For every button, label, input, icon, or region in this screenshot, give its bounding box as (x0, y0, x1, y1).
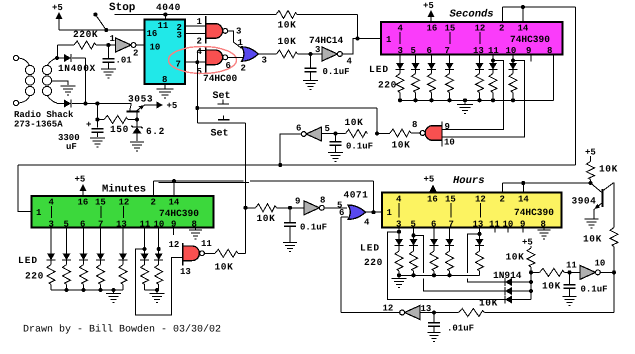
svg-text:3: 3 (177, 31, 182, 41)
pin 11 label (158, 21, 169, 31)
wire U8 pin 10 stub (507, 228, 509, 233)
wire U3b out to hours pin 1 (366, 210, 383, 214)
label 10K (R10) (542, 281, 561, 292)
pin 5 label (U6) (411, 46, 416, 56)
wire (bottom secondary to D2) (57, 103, 64, 105)
LED D35 hours pin13 column (475, 228, 484, 246)
OR gate U3b 4071 (hours clock) (348, 205, 366, 219)
svg-text:8: 8 (320, 196, 325, 206)
pin 8 label (162, 75, 167, 85)
label 0.1uF (C5) (300, 223, 327, 233)
capacitor C4 0.1uF (330, 134, 342, 153)
svg-text:273-1365A: 273-1365A (14, 120, 63, 130)
resistor R14 220 seconds column (446, 70, 454, 101)
resistor R27 220 (155, 260, 163, 290)
svg-text:5: 5 (411, 46, 416, 56)
svg-text:10: 10 (506, 46, 517, 56)
pin 16 label (U7) (78, 198, 89, 208)
ground (C6) (563, 297, 577, 306)
svg-text:16: 16 (427, 24, 438, 34)
svg-text:11: 11 (158, 21, 169, 31)
wire U4b input from cap node (420, 312, 434, 314)
wire R6 to U1b (322, 132, 346, 136)
LED D14 seconds column (445, 55, 454, 70)
capacitor C5 0.1uF (284, 208, 296, 242)
svg-text:5: 5 (325, 124, 330, 134)
svg-text:10K: 10K (479, 298, 498, 309)
pin 16 label (U6) (427, 24, 438, 34)
label 0.1uF (C3) (323, 67, 350, 77)
pin 7 label (U8) (449, 220, 454, 230)
svg-text:10K: 10K (392, 140, 411, 151)
wire minutes pin11/10 bus (145, 288, 159, 292)
LED D34 hours column (445, 228, 454, 246)
label .01uF (C7) (447, 324, 474, 334)
NAND gate U2a 74HC00 (206, 16, 228, 44)
svg-text:74HC390: 74HC390 (510, 34, 550, 45)
pin 14 label (U8) (518, 195, 529, 205)
pin 12 label (U4b) (383, 304, 394, 314)
wire hours LED bus (397, 273, 480, 277)
ground (C7) (428, 333, 441, 342)
pin 4 label (U8) (396, 195, 402, 218)
svg-text:4040: 4040 (156, 2, 181, 13)
svg-text:14: 14 (518, 24, 529, 34)
svg-text:9: 9 (445, 122, 450, 132)
label 220K (73, 29, 98, 40)
svg-text:+5: +5 (52, 3, 63, 13)
svg-text:+5: +5 (75, 175, 86, 185)
wire (rail to R1) (95, 104, 99, 122)
svg-text:0.1uF: 0.1uF (300, 223, 327, 233)
pin 10 label (U7) (154, 220, 165, 230)
wire U8 pin 9 stub (522, 228, 524, 233)
wire R12 to U4a out node (613, 247, 615, 273)
LED D31 hours column (395, 228, 404, 246)
label 10K (R7) (215, 262, 234, 273)
ground (minutes 11/10 bus) (150, 290, 165, 303)
pin 13 label (U7) (116, 220, 127, 230)
diode D2 1N400X (64, 100, 71, 108)
svg-text:1: 1 (238, 38, 244, 48)
LED D21 minutes column (47, 228, 56, 261)
svg-text:+5: +5 (167, 101, 178, 111)
resistor R3 10K (276, 11, 297, 19)
pin 4 label (U3b) (364, 218, 370, 228)
svg-text:3053: 3053 (128, 94, 153, 105)
svg-text:4: 4 (364, 218, 370, 228)
label 4040 (156, 2, 181, 13)
wire U1b out to minutes clock line (278, 134, 301, 167)
LED D32 hours column (409, 228, 418, 246)
zener D3 6.2V (132, 120, 143, 142)
pin 13 label (U8) (473, 220, 484, 230)
switch S3 Set (minutes advance) (218, 116, 230, 120)
pin 1 label (110, 34, 116, 44)
label 4071 (344, 190, 369, 201)
ground (minutes LED bus) (106, 290, 121, 303)
NAND gate U2b 74HC00 (206, 47, 228, 74)
ground (U7 pin 8) (189, 228, 202, 240)
svg-text:11: 11 (140, 220, 151, 230)
svg-text:13: 13 (116, 220, 127, 230)
resistor R12 220 seconds column (412, 70, 420, 101)
label 10K (R3) (278, 20, 297, 31)
svg-text:2: 2 (241, 64, 246, 74)
pin 12 label (U6) (475, 24, 486, 45)
resistor R1 150 (104, 116, 128, 124)
pin 7 label (U7) (98, 220, 103, 230)
pin 7 label (U6) (445, 46, 450, 56)
svg-text:10K: 10K (257, 213, 276, 224)
pin 1 label (U8) (387, 208, 393, 218)
wire U8 pin3 tap to diode row3 (388, 232, 505, 300)
svg-text:.01: .01 (116, 56, 133, 66)
+5 arrow (U7 pin 16) (75, 175, 87, 197)
+5 arrow (U6 pin 16) (423, 1, 435, 22)
pin 3 label (U3a) (262, 56, 267, 66)
wire set2 line to minutes chain (197, 123, 247, 254)
resistor R15 220 seconds column (476, 70, 484, 101)
svg-text:220: 220 (378, 80, 397, 91)
wire (U1a out to 4040 pin10) (136, 44, 145, 46)
wire hours base line (503, 181, 593, 185)
wire U2c out to R5 (411, 132, 420, 134)
svg-text:2: 2 (151, 198, 156, 208)
switch S1 Stop (93, 13, 106, 31)
pin 14 label (U6) (518, 24, 529, 34)
pin 13 label (U6) (473, 46, 484, 56)
label 3053 (128, 94, 153, 105)
wire (220K to U1 pin1) (96, 43, 116, 47)
resistor R17 220 seconds column (509, 70, 517, 101)
wire right side down to hours set line (613, 272, 615, 312)
inverter U4b 74HC14 pins 13-12 (400, 306, 420, 320)
svg-text:0.1uF: 0.1uF (581, 285, 608, 295)
pin 15 label (U6) (445, 24, 456, 45)
ground (hours LED bus) (392, 276, 407, 288)
pin 14 label (U7) (169, 198, 180, 208)
resistor R13 220 seconds column (428, 70, 436, 101)
svg-text:2: 2 (133, 49, 138, 59)
wire (stop switch line) (115, 13, 276, 20)
svg-text:Set: Set (213, 91, 231, 102)
label 10K (R5) (392, 140, 411, 151)
svg-text:11: 11 (488, 46, 499, 56)
svg-text:9: 9 (526, 46, 531, 56)
IC U8 74HC390 Hours (382, 193, 562, 228)
svg-text:15: 15 (95, 198, 106, 208)
wire U2b out to U3a in2 (228, 57, 246, 60)
svg-text:2: 2 (499, 24, 504, 34)
pin 9 label (U7) (171, 220, 176, 230)
ground (C5) (283, 243, 297, 252)
wire U8 pins 2,14 risers (503, 181, 526, 193)
pin 10 label (U8) (503, 220, 514, 230)
wire U8 pin 11 stub (494, 228, 496, 233)
label LED (minutes) (18, 255, 38, 266)
wire U6 pin 9 stub (530, 55, 532, 62)
pin 2 label (U7) (151, 198, 156, 208)
svg-text:7: 7 (445, 46, 450, 56)
label 10K (R6) (345, 117, 364, 128)
label 10K (R8) (257, 213, 276, 224)
pin 2 label (133, 49, 138, 59)
svg-text:14: 14 (518, 195, 529, 205)
svg-text:10K: 10K (345, 117, 364, 128)
svg-text:+5: +5 (423, 1, 434, 11)
NAND gate U2c 74HC00 (seconds reset) (420, 122, 442, 147)
label 10K (R4) (278, 36, 297, 47)
pin 8 label (U8) (541, 220, 546, 230)
resistor R10 10K (540, 268, 565, 276)
inverter U4a 74HC14 pins 11-10 (580, 265, 600, 279)
svg-text:3: 3 (315, 45, 320, 55)
wire U4a out junction (600, 270, 616, 274)
svg-text:74HC00: 74HC00 (203, 73, 238, 84)
label 74HC00 (203, 73, 238, 84)
pin 9 label (U1d) (295, 197, 300, 207)
ground (C1) (90, 138, 105, 147)
pin 9 label (U6) (526, 46, 531, 56)
svg-text:Seconds: Seconds (450, 9, 494, 21)
label 1N400X (58, 63, 96, 74)
label 10K (R12) (583, 234, 602, 245)
wire R4 to U1c (298, 52, 323, 56)
LED D22 minutes column (62, 228, 71, 261)
resistor R11 10K (587, 162, 595, 180)
svg-text:74HC390: 74HC390 (159, 208, 199, 219)
svg-text:10K: 10K (542, 281, 561, 292)
pin 8 label (U1d) (320, 196, 325, 206)
+5 supply arrow (top left) (52, 3, 63, 30)
label Set (S2) (213, 91, 231, 102)
resistor R8 10K (256, 204, 277, 212)
LED D11 seconds column (396, 55, 405, 70)
svg-text:0.1uF: 0.1uF (323, 67, 350, 77)
wire +5 to R11 (590, 156, 592, 162)
ground (seconds LED bus) (457, 100, 473, 113)
svg-text:6: 6 (296, 124, 301, 134)
wire U8 pin5 tap to diode row2 (414, 235, 505, 291)
svg-text:1: 1 (110, 34, 116, 44)
+5 output arrow (Q1 emitter) (157, 101, 178, 111)
LED D25 minutes column (119, 228, 128, 261)
pin 5 label (U3b) (337, 201, 342, 211)
wire minutes LED bus (51, 288, 123, 292)
label .01 (116, 56, 133, 66)
pin 11 label (U8) (489, 220, 500, 230)
wire R13 to U4b input (432, 311, 459, 315)
svg-text:220: 220 (364, 257, 383, 268)
wire U7 pins 2,14 risers (154, 179, 177, 196)
label Hours (453, 175, 485, 187)
LED D24 minutes column (96, 228, 105, 261)
wire R7 up to minutes set node (238, 252, 246, 254)
svg-text:10K: 10K (278, 20, 297, 31)
wire U6 pins 2,14 join (503, 5, 576, 22)
resistor R9 10K (527, 248, 535, 267)
pin 12 label (U8) (475, 195, 486, 218)
pin 2 label (U6) (499, 24, 504, 34)
capacitor C2 .01 (102, 45, 114, 69)
IC U5 4040 counter (145, 20, 186, 85)
resistor R31 220 hours column (395, 246, 403, 276)
wire +5 rail to 4040 pin 16 (59, 28, 145, 32)
resistor R22 220 minutes column (63, 260, 71, 290)
resistor R16 220 seconds column (489, 70, 497, 101)
+5 arrow (hours reset pullup) (522, 238, 533, 249)
svg-text:1: 1 (197, 17, 203, 27)
label Radio Shack 273-1365A (14, 110, 74, 130)
wire (DC rail to Q1 collector) (95, 102, 131, 106)
pin 8 label (U6) (547, 46, 552, 56)
svg-text:4: 4 (197, 47, 203, 57)
resistor R7 10K (215, 249, 238, 257)
pin 5 label (U2b) (197, 67, 202, 77)
label Minutes (102, 184, 146, 196)
svg-text:LED: LED (18, 255, 38, 266)
pin 10 label (150, 43, 161, 53)
svg-text:3: 3 (236, 27, 241, 37)
wire seconds LED ground bus (398, 98, 554, 102)
transistor Q2 3904 (591, 183, 614, 210)
svg-text:10K: 10K (583, 234, 602, 245)
resistor R35 220 (476, 246, 484, 276)
label 74HC390 (U8) (514, 207, 554, 218)
pin 3 label (177, 31, 182, 41)
label 10K (R13) (479, 298, 498, 309)
resistor R25 220 minutes column (119, 260, 127, 290)
ground (zener) (130, 142, 144, 151)
pin 5 label (U1b) (325, 124, 330, 134)
resistor R24 220 minutes column (97, 260, 105, 290)
svg-text:74HC390: 74HC390 (514, 207, 554, 218)
wire Q2 collector down (613, 183, 615, 228)
wire set node to R8 (246, 207, 256, 209)
resistor R32 220 hours column (410, 246, 418, 276)
resistor R5 10K (390, 129, 411, 137)
wire minutes pins 2,14 to hours clock node (154, 181, 374, 212)
label 74HC390 (U6) (510, 34, 550, 45)
switch S2 Set (seconds hold) (218, 100, 230, 105)
pin 1 label (U3a) (238, 38, 244, 48)
svg-text:1: 1 (36, 208, 42, 218)
OR gate U3a 4071 (242, 47, 259, 61)
label LED (hours) (360, 243, 380, 254)
pin 3 label (U6) (398, 46, 403, 56)
pin 15 label (U7) (95, 198, 106, 219)
pin 3 label (U7) (49, 220, 54, 230)
label LED (seconds) (369, 64, 389, 75)
svg-text:Set: Set (211, 129, 229, 140)
wire R9 to node (530, 267, 532, 272)
diode D4 1N914 (505, 278, 512, 286)
svg-text:13: 13 (473, 220, 484, 230)
wire R8 to U1d (277, 206, 304, 210)
capacitor C1 3300uF (86, 104, 103, 138)
IC U7 74HC390 Minutes (32, 196, 214, 228)
pin 2 label (U2a) (197, 37, 202, 47)
label 3300 uF (58, 133, 80, 152)
wire 4040 pin7 to U2b (185, 50, 206, 64)
inverter U1a 74HC14 pins 1-2 (116, 38, 136, 52)
svg-text:16: 16 (427, 195, 438, 205)
svg-text:2: 2 (197, 37, 202, 47)
pin 5 label (U8) (411, 220, 416, 230)
svg-text:+5: +5 (424, 175, 435, 185)
svg-text:220: 220 (25, 271, 44, 282)
label +5 (Q2 pullup) (585, 148, 596, 158)
pin 6 label (U1b) (296, 124, 301, 134)
pin 1 label (U2a) (197, 17, 203, 27)
svg-text:4071: 4071 (344, 190, 369, 201)
resistor R6 10K (346, 130, 368, 138)
pin 6 label (U6) (427, 46, 432, 56)
LED D17 seconds column (509, 55, 518, 70)
resistor R12 10K (610, 228, 618, 247)
pin 3 label (U8) (396, 220, 401, 230)
LED D15 seconds column (475, 55, 484, 70)
svg-text:+: + (86, 120, 91, 130)
label 220 (hours) (364, 257, 383, 268)
svg-text:10K: 10K (506, 252, 525, 263)
wire R11 to base line (590, 180, 592, 184)
svg-text:8: 8 (162, 75, 167, 85)
label 74HC390 (U7) (159, 208, 199, 219)
svg-text:16: 16 (147, 29, 158, 39)
ground (transformer center tap) (61, 86, 76, 95)
resistor R23 220 minutes column (80, 260, 88, 290)
label 3904 (572, 196, 597, 207)
wire U3a out to R4 (258, 53, 276, 55)
svg-text:9: 9 (295, 197, 300, 207)
resistor R11 220 seconds column (396, 70, 404, 101)
svg-text:6: 6 (427, 46, 432, 56)
NAND gate U2d 74HC00 (minutes reset) (183, 243, 205, 266)
svg-text:12: 12 (169, 240, 180, 250)
LED D33 hours column (430, 228, 439, 246)
wire R5 to set node (375, 132, 390, 136)
svg-text:.01uF: .01uF (447, 324, 474, 334)
pin 6 label (U3b) (339, 208, 344, 218)
wire hours set line right (485, 312, 615, 314)
svg-text:10: 10 (595, 259, 606, 269)
wire set line drop (376, 108, 378, 134)
wire U1c out to seconds pin 1 (342, 37, 381, 54)
pin 1 label (U7) (36, 208, 42, 218)
label Drawn by - Bill Bowden - 03/30/02 (23, 324, 221, 336)
wire U1d out to U3b in5 (324, 207, 347, 209)
pin 2 label (177, 23, 182, 33)
resistor R34 220 hours column (446, 246, 454, 276)
pin 12 label (U7) (119, 198, 130, 219)
pin 16 label (U8) (427, 195, 438, 205)
transistor Q1 3053 (127, 104, 157, 120)
svg-text:8: 8 (192, 220, 197, 230)
LED D23 minutes column (79, 228, 88, 261)
pin 13 label (U4b) (421, 304, 432, 314)
wire (seconds clock feed down right side) (575, 7, 577, 165)
pin 1 label (U6) (386, 35, 392, 45)
pin 11 label (U4a) (566, 261, 577, 271)
pin 3 label (U2a) (236, 27, 241, 37)
svg-text:Hours: Hours (453, 175, 485, 187)
svg-text:8: 8 (412, 120, 417, 130)
svg-text:6: 6 (80, 220, 85, 230)
label 6.2 (146, 126, 165, 137)
diode D1 1N400X (64, 54, 71, 62)
